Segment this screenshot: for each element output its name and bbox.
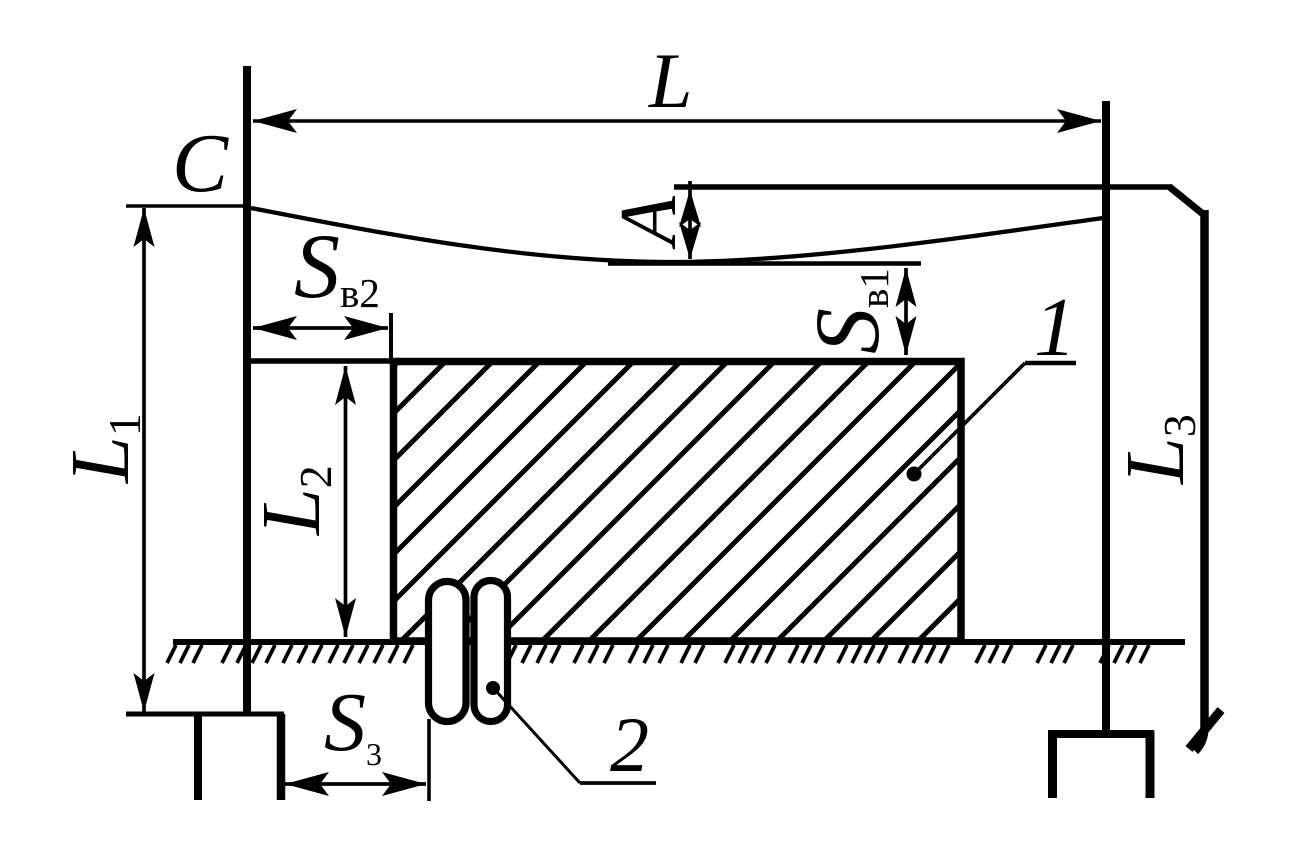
dimension S_v1 (wire to building top): [896, 268, 917, 355]
leader dot on wheel 2b: [486, 681, 500, 695]
dimension A (wire sag): [679, 181, 701, 259]
reference line at right attachment level: [674, 184, 1172, 190]
svg-text:L: L: [648, 37, 692, 124]
ground line: [173, 639, 1185, 645]
building 1 outline: [394, 362, 962, 642]
left support pole: [243, 66, 251, 713]
dimension L (span between poles): [253, 109, 1101, 133]
extension line above building left edge: [389, 313, 393, 358]
wheel 2a (left capsule): [429, 582, 467, 722]
right support pole: [1102, 101, 1110, 731]
building 1 hatching: [45, 300, 1259, 715]
wire (sagging catenary between poles): [251, 208, 1103, 262]
wheel 2b (right capsule): [474, 581, 508, 722]
leader line for item 1 (building): [907, 363, 1077, 482]
svg-text:A: A: [605, 195, 693, 250]
L3 arrow barb: [1189, 710, 1221, 749]
dimension L1 (attachment height): [134, 208, 155, 712]
extension line at lowest wire level: [608, 261, 921, 266]
extension line at C level: [126, 204, 251, 208]
dimension S3 (footing to wheel): [285, 772, 426, 796]
dimension L2 (building height): [335, 366, 356, 637]
leader line for item 2 (wheels): [496, 691, 656, 783]
svg-text:C: C: [172, 117, 229, 210]
left pole footing: [126, 714, 284, 800]
extension line from building top to left pole: [247, 358, 393, 364]
dimension S_v2 (pole to building edge): [253, 316, 388, 340]
right pole footing: [1048, 731, 1154, 798]
L3 dimension line: [1195, 210, 1205, 751]
extension line below wheel 2a: [427, 719, 431, 801]
ground hatching: [167, 645, 1149, 663]
svg-text:2: 2: [610, 701, 649, 788]
svg-text:1: 1: [1034, 281, 1076, 374]
corner chamfer into L3 line: [1169, 187, 1203, 215]
